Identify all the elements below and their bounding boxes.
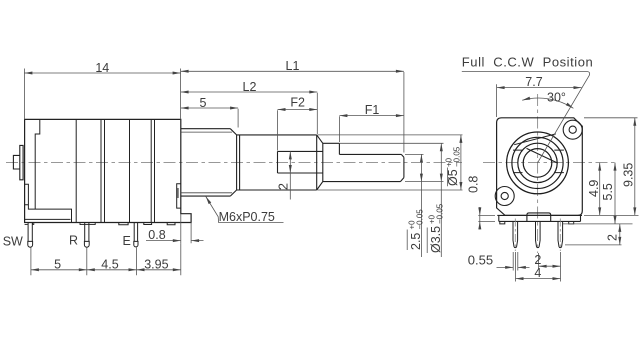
label Ø5 tol rotated <box>445 146 462 186</box>
svg-text:5: 5 <box>200 96 207 110</box>
pin R <box>84 223 89 248</box>
right view v-centerline <box>537 94 539 253</box>
partition line 3 <box>129 119 131 222</box>
dim 4.9 <box>599 163 601 216</box>
corner foot right <box>569 221 574 224</box>
svg-text:0.8: 0.8 <box>467 176 481 193</box>
pin SW collar <box>25 223 34 225</box>
dim 7.7 <box>497 84 582 117</box>
pin centerlines right view <box>515 219 560 252</box>
svg-text:5: 5 <box>54 257 61 271</box>
body inner step bottom-left <box>25 184 72 222</box>
label 2.5 tol rotated <box>408 209 425 250</box>
svg-text:F2: F2 <box>290 96 305 110</box>
right view body square <box>497 118 583 216</box>
dim 2 slot <box>289 151 291 199</box>
dim 0.8 right view <box>478 207 495 230</box>
ext lines right of shaft <box>318 135 463 190</box>
svg-text:4.5: 4.5 <box>101 257 118 271</box>
svg-text:30°: 30° <box>547 91 566 105</box>
svg-text:Ø3.5: Ø3.5 <box>429 226 443 253</box>
shaft inner circle <box>523 149 552 178</box>
shaft end segment with flat <box>323 143 404 181</box>
dim 9.35 <box>634 118 636 216</box>
corner foot left <box>500 221 505 224</box>
svg-text:−0.05: −0.05 <box>453 146 462 167</box>
pin R collar <box>80 223 95 225</box>
mount circle bottom-left outer <box>495 187 514 206</box>
right side ext lines <box>563 118 639 245</box>
right clip tab <box>177 184 181 208</box>
mount circle top-right outer <box>563 120 582 139</box>
svg-text:7.7: 7.7 <box>525 75 542 89</box>
shaft segment Ø5 <box>237 135 323 190</box>
dim 2 right <box>619 224 621 245</box>
dim Ø5 <box>460 135 462 190</box>
flange flat right <box>554 150 564 173</box>
dim L2 <box>181 92 318 134</box>
pin 1 <box>513 221 518 247</box>
M6xP0.75 leader <box>206 197 284 223</box>
dim Ø3.5 <box>440 143 442 257</box>
bottom dims right view <box>497 252 561 282</box>
title underline and leader <box>462 72 590 163</box>
pin E <box>134 223 138 247</box>
shaft circle <box>518 143 557 182</box>
flange flat left <box>513 150 523 173</box>
body inner step top-left <box>35 119 40 209</box>
svg-text:0.8: 0.8 <box>148 228 165 242</box>
svg-text:R: R <box>69 234 78 248</box>
left knob <box>13 155 19 169</box>
dim F2 <box>278 110 318 151</box>
svg-text:3.95: 3.95 <box>144 257 168 271</box>
svg-text:L1: L1 <box>286 59 300 73</box>
dim 5.5 <box>614 163 616 224</box>
right view h-centerline <box>483 162 617 164</box>
shaft slot <box>278 151 323 173</box>
dim 5 (bushing) <box>181 108 239 128</box>
body outline (side view) <box>25 119 192 222</box>
base strip <box>499 215 581 221</box>
svg-text:14: 14 <box>95 61 109 75</box>
svg-text:Full C.C.W Position: Full C.C.W Position <box>462 54 593 69</box>
30 deg arc <box>522 98 573 108</box>
mount circle bottom-left inner <box>501 192 508 199</box>
svg-text:9.35: 9.35 <box>621 163 635 187</box>
svg-text:−0.05: −0.05 <box>416 209 425 230</box>
pin SW <box>28 223 33 248</box>
upper chord <box>514 134 556 145</box>
bottom tab c <box>167 223 175 225</box>
bottom chain dims 5 / 4.5 / 3.95 <box>31 243 181 275</box>
pin 3 <box>558 221 563 247</box>
svg-text:5.5: 5.5 <box>601 183 615 200</box>
svg-text:L2: L2 <box>243 80 257 94</box>
svg-text:SW: SW <box>3 235 23 249</box>
svg-text:2: 2 <box>606 234 620 241</box>
bushing M6 <box>181 129 240 196</box>
svg-text:0.55: 0.55 <box>468 253 493 268</box>
pin 2 <box>536 221 541 247</box>
svg-text:Ø5: Ø5 <box>446 169 460 186</box>
centerline left view <box>6 161 462 163</box>
dim 14 <box>24 69 180 120</box>
flange circle 2 <box>512 137 563 188</box>
svg-text:M6xP0.75: M6xP0.75 <box>219 210 275 224</box>
shaft flat chord <box>527 148 558 163</box>
svg-text:2.5: 2.5 <box>409 233 423 250</box>
svg-text:4: 4 <box>534 266 541 280</box>
bottom tab b <box>144 223 152 225</box>
dim L1 <box>181 71 404 152</box>
partition line 1 <box>75 119 77 222</box>
bottom tab a <box>119 223 128 225</box>
svg-text:E: E <box>123 234 131 248</box>
center mount tab <box>527 213 551 222</box>
bushing thread lines <box>181 132 232 193</box>
flange circle outer <box>507 132 569 194</box>
bottom edge of square <box>497 214 582 216</box>
partition pair 4 <box>151 119 154 222</box>
dim 0.8 foot <box>146 214 204 243</box>
partition pair 2 <box>101 119 105 222</box>
svg-text:−0.05: −0.05 <box>436 203 445 224</box>
dim 2.5 <box>420 154 422 257</box>
svg-text:F1: F1 <box>365 103 380 117</box>
dim F1 <box>339 116 404 142</box>
left clip bar <box>20 145 23 179</box>
svg-text:4.9: 4.9 <box>587 180 601 197</box>
svg-text:2: 2 <box>276 183 290 190</box>
mount circle top-right inner <box>569 126 576 133</box>
label Ø3.5 tol rotated <box>428 203 445 253</box>
